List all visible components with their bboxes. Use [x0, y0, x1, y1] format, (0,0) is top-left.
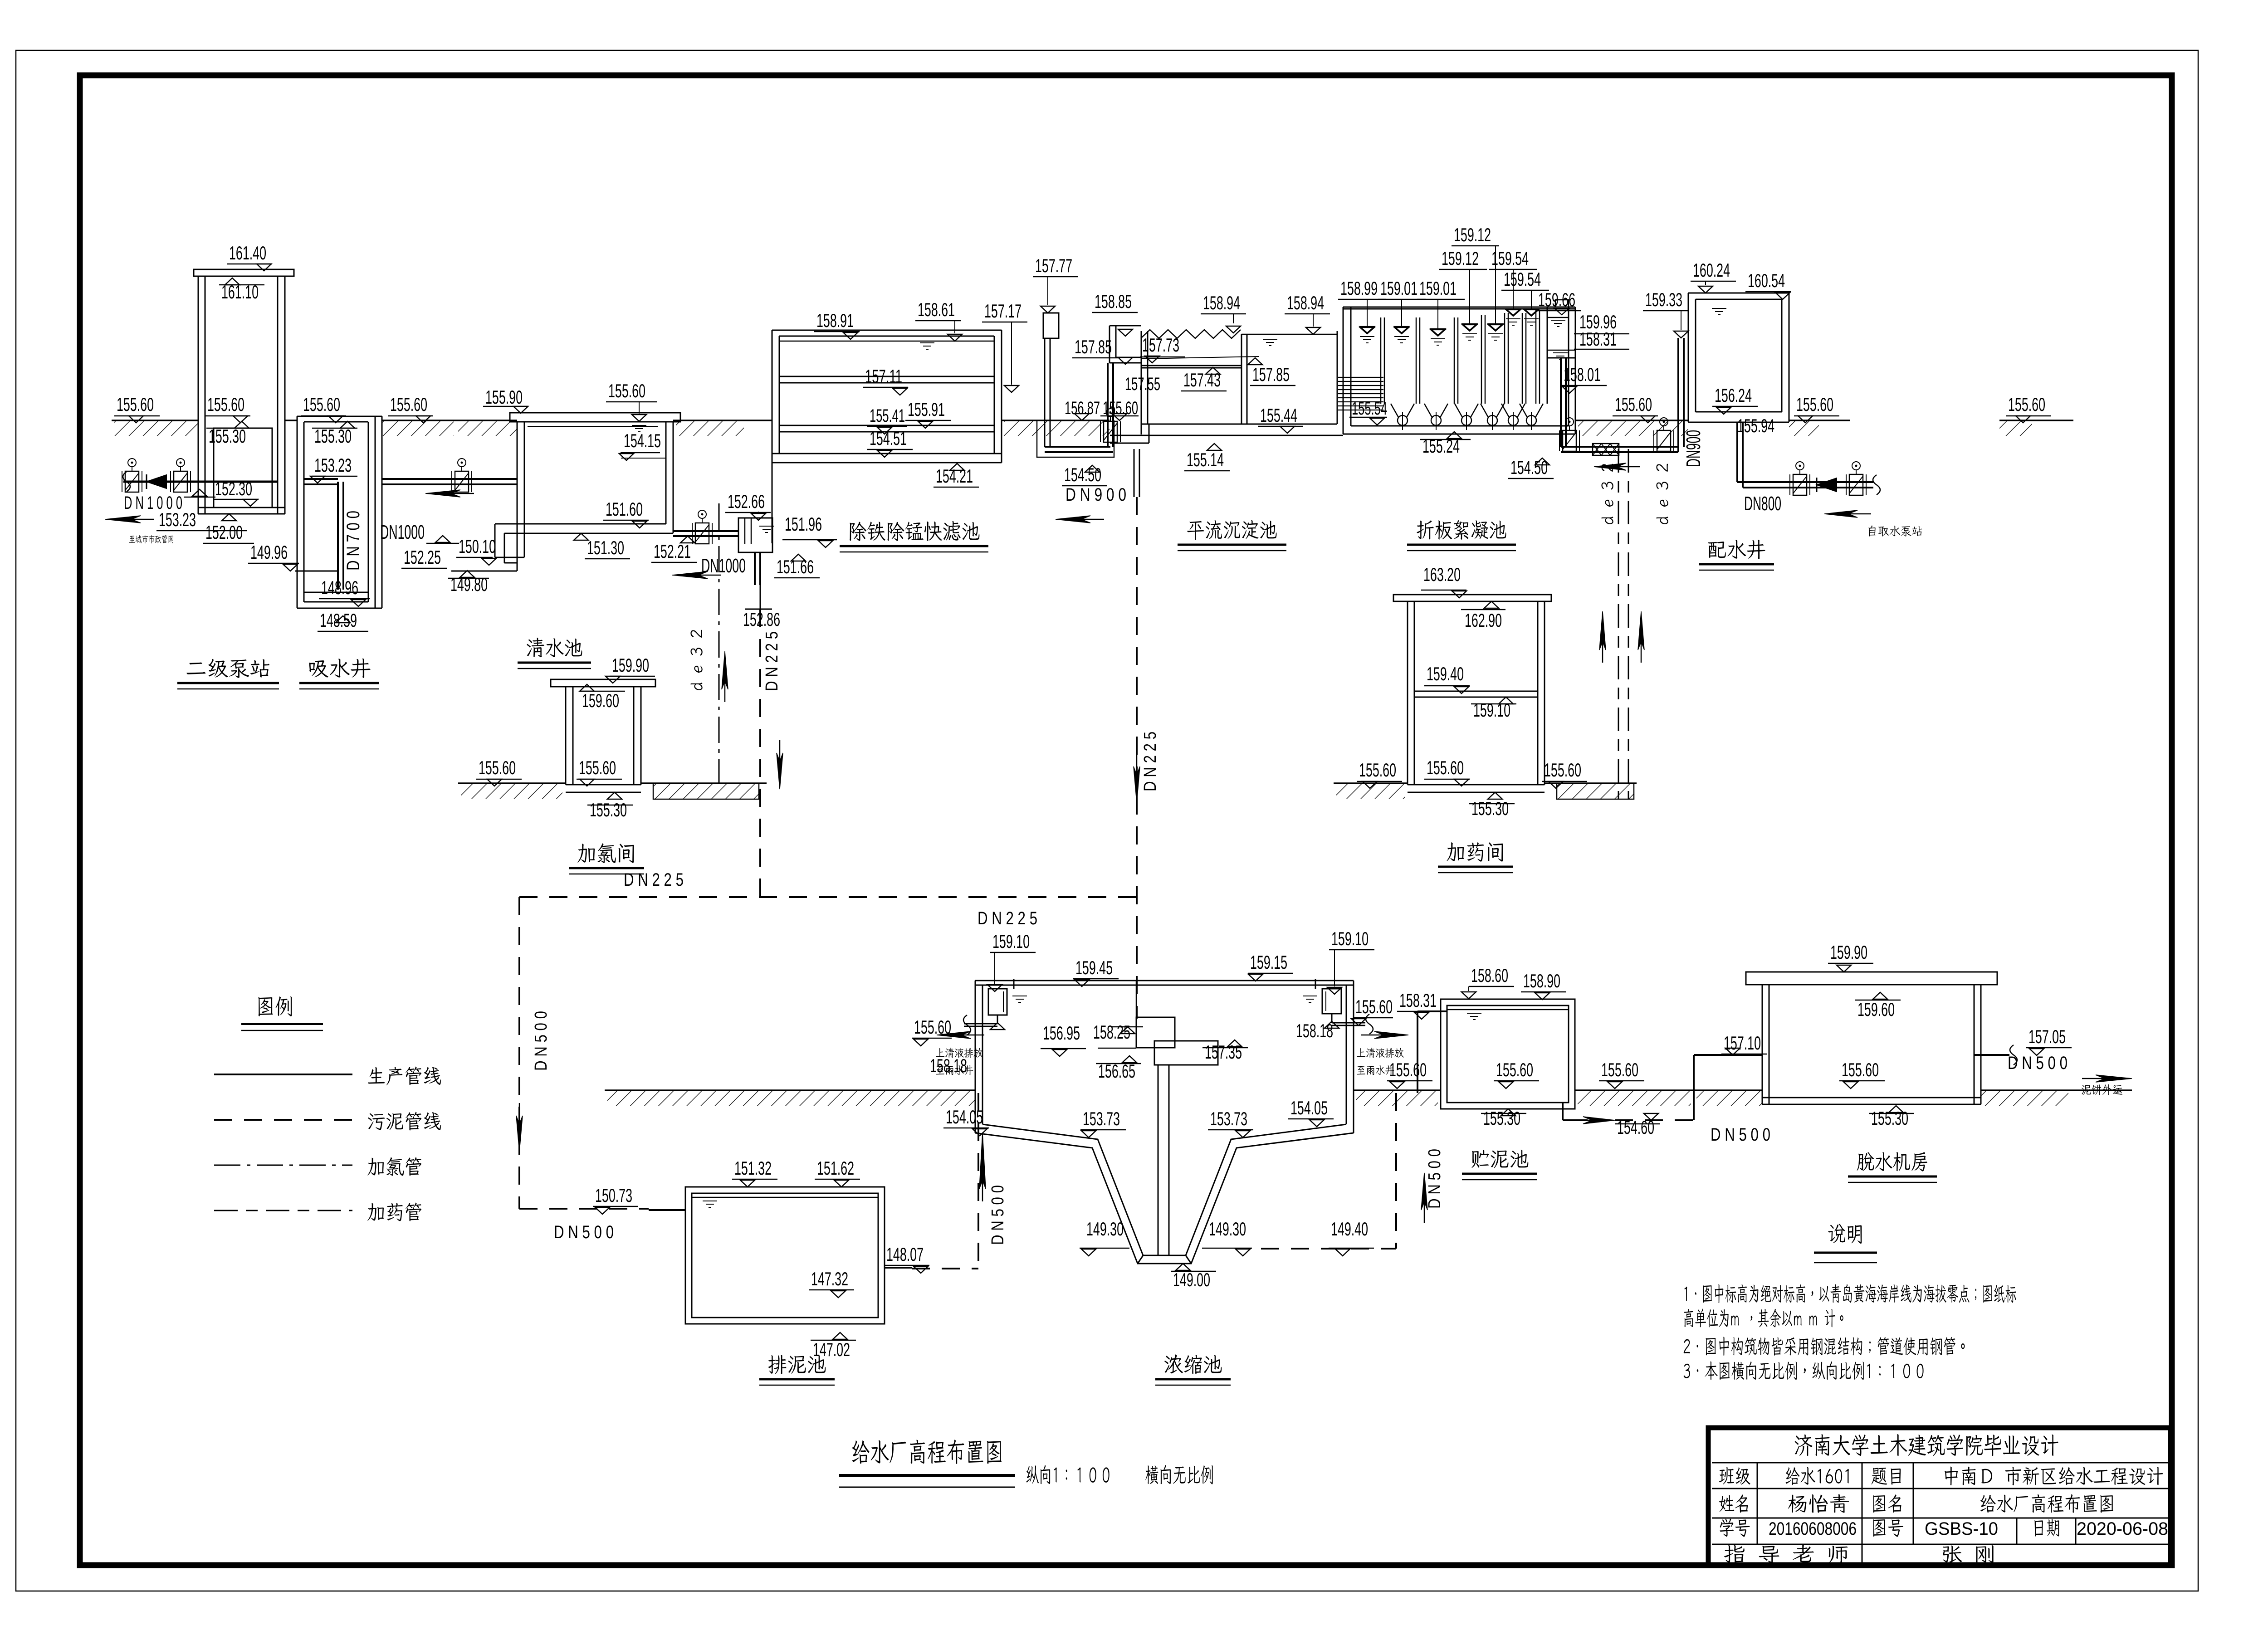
svg-text:157.77: 157.77	[1035, 255, 1072, 276]
svg-text:155.60: 155.60	[608, 380, 645, 401]
svg-text:D N 2 2 5: D N 2 2 5	[763, 631, 782, 691]
svg-text:159.54: 159.54	[1491, 248, 1529, 269]
svg-text:153.73: 153.73	[1083, 1108, 1120, 1129]
svg-text:155.60: 155.60	[1355, 996, 1393, 1017]
svg-text:155.60: 155.60	[914, 1016, 951, 1038]
svg-text:152.66: 152.66	[728, 491, 765, 512]
svg-text:149.96: 149.96	[250, 542, 288, 563]
svg-text:150.10: 150.10	[459, 536, 496, 557]
svg-text:DN1000: DN1000	[701, 555, 746, 577]
svg-text:151.66: 151.66	[777, 556, 814, 577]
svg-text:154.05: 154.05	[946, 1106, 983, 1127]
svg-text:158.99: 158.99	[1340, 278, 1378, 299]
svg-text:158.01: 158.01	[1564, 364, 1601, 385]
svg-text:155.60: 155.60	[1427, 757, 1464, 778]
svg-text:149.30: 149.30	[1086, 1218, 1124, 1240]
svg-text:151.96: 151.96	[785, 513, 822, 535]
svg-text:155.60: 155.60	[579, 757, 616, 778]
svg-text:D N 2 2 5: D N 2 2 5	[624, 870, 684, 890]
svg-text:157.43: 157.43	[1183, 369, 1221, 390]
svg-text:D N 5 0 0: D N 5 0 0	[1711, 1125, 1770, 1145]
svg-text:157.55: 157.55	[1125, 374, 1160, 394]
svg-text:154.50: 154.50	[1510, 457, 1548, 478]
svg-text:161.40: 161.40	[229, 242, 266, 264]
svg-text:153.73: 153.73	[1210, 1108, 1247, 1129]
svg-text:157.11: 157.11	[865, 366, 902, 387]
svg-text:155.91: 155.91	[908, 399, 945, 420]
svg-text:150.73: 150.73	[595, 1185, 632, 1206]
svg-text:159.60: 159.60	[582, 690, 619, 711]
svg-text:151.30: 151.30	[587, 537, 624, 558]
svg-text:158.25: 158.25	[1093, 1021, 1130, 1043]
svg-text:155.90: 155.90	[485, 386, 523, 408]
svg-text:155.54: 155.54	[1352, 399, 1387, 419]
svg-text:153.23: 153.23	[159, 509, 196, 530]
svg-text:158.31: 158.31	[1399, 990, 1437, 1011]
svg-text:151.62: 151.62	[817, 1157, 854, 1179]
svg-text:154.50: 154.50	[1064, 464, 1101, 485]
svg-text:155.60: 155.60	[303, 394, 340, 415]
svg-text:155.60: 155.60	[390, 394, 427, 415]
svg-text:156.95: 156.95	[1043, 1022, 1080, 1044]
svg-text:155.60: 155.60	[117, 394, 154, 415]
svg-text:155.60: 155.60	[1496, 1059, 1533, 1080]
svg-text:DN900: DN900	[1682, 430, 1705, 467]
svg-text:159.12: 159.12	[1454, 224, 1491, 245]
svg-text:D N 9 0 0: D N 9 0 0	[1066, 485, 1126, 505]
svg-text:155.60: 155.60	[479, 757, 516, 778]
svg-text:152.30: 152.30	[215, 478, 252, 499]
svg-text:155.60: 155.60	[1389, 1059, 1427, 1080]
svg-text:160.54: 160.54	[1748, 270, 1785, 291]
svg-text:155.30: 155.30	[1483, 1108, 1520, 1129]
svg-text:159.40: 159.40	[1427, 663, 1464, 684]
svg-text:D N 2 2 5: D N 2 2 5	[978, 908, 1037, 928]
svg-text:159.54: 159.54	[1504, 268, 1541, 290]
svg-text:147.02: 147.02	[813, 1339, 850, 1360]
svg-text:155.60: 155.60	[1842, 1059, 1879, 1080]
svg-text:D N 5 0 0: D N 5 0 0	[2008, 1053, 2068, 1073]
svg-text:D N 5 0 0: D N 5 0 0	[554, 1222, 614, 1242]
svg-text:153.23: 153.23	[314, 454, 352, 476]
svg-text:D N 2 2 5: D N 2 2 5	[1141, 732, 1160, 791]
svg-text:155.30: 155.30	[590, 799, 627, 820]
svg-text:155.60: 155.60	[1544, 759, 1581, 781]
svg-text:155.30: 155.30	[1471, 798, 1509, 819]
svg-text:GSBS-10: GSBS-10	[1925, 1519, 1998, 1539]
svg-text:152.00: 152.00	[205, 522, 243, 543]
svg-text:158.18: 158.18	[1296, 1020, 1333, 1041]
svg-text:157.17: 157.17	[984, 300, 1022, 322]
svg-text:155.60: 155.60	[1601, 1059, 1638, 1080]
svg-text:D N 5 0 0: D N 5 0 0	[988, 1185, 1007, 1245]
svg-text:158.94: 158.94	[1287, 292, 1324, 313]
svg-text:D N 7 0 0: D N 7 0 0	[343, 511, 363, 571]
svg-text:151.60: 151.60	[606, 498, 643, 520]
svg-text:159.01: 159.01	[1419, 278, 1457, 299]
svg-text:159.10: 159.10	[992, 931, 1030, 952]
svg-text:159.15: 159.15	[1250, 952, 1287, 973]
svg-text:152.21: 152.21	[654, 541, 691, 562]
svg-text:159.90: 159.90	[612, 654, 649, 676]
svg-text:155.60: 155.60	[1359, 759, 1396, 781]
svg-text:158.91: 158.91	[816, 310, 854, 331]
svg-text:152.86: 152.86	[743, 609, 780, 630]
svg-text:154.15: 154.15	[624, 430, 661, 451]
svg-text:154.05: 154.05	[1290, 1097, 1328, 1118]
svg-text:156.87: 156.87	[1065, 398, 1100, 418]
svg-text:DN1000: DN1000	[380, 521, 425, 543]
svg-text:157.85: 157.85	[1075, 336, 1112, 357]
svg-text:154.51: 154.51	[870, 428, 907, 449]
svg-text:155.41: 155.41	[870, 406, 905, 426]
svg-text:158.18: 158.18	[930, 1055, 967, 1076]
svg-text:155.44: 155.44	[1260, 405, 1297, 426]
svg-text:154.21: 154.21	[936, 465, 973, 487]
svg-text:148.07: 148.07	[886, 1244, 924, 1265]
svg-text:159.01: 159.01	[1380, 278, 1417, 299]
svg-text:159.10: 159.10	[1473, 699, 1510, 721]
svg-text:149.40: 149.40	[1331, 1218, 1368, 1240]
svg-text:155.14: 155.14	[1187, 449, 1224, 470]
svg-text:155.60: 155.60	[1615, 394, 1652, 415]
svg-text:D N 5 0 0: D N 5 0 0	[1425, 1149, 1444, 1209]
svg-text:157.35: 157.35	[1205, 1041, 1242, 1063]
svg-text:151.32: 151.32	[734, 1157, 772, 1179]
svg-text:149.00: 149.00	[1173, 1269, 1210, 1290]
svg-text:157.85: 157.85	[1252, 364, 1290, 385]
svg-text:159.90: 159.90	[1830, 942, 1867, 963]
svg-text:163.20: 163.20	[1423, 564, 1461, 585]
svg-text:152.25: 152.25	[404, 547, 441, 568]
svg-text:155.60: 155.60	[207, 394, 244, 415]
svg-text:158.94: 158.94	[1203, 292, 1240, 313]
svg-text:2020-06-08: 2020-06-08	[2077, 1519, 2168, 1539]
svg-text:147.32: 147.32	[811, 1268, 848, 1289]
svg-text:159.33: 159.33	[1645, 289, 1682, 310]
svg-text:156.24: 156.24	[1715, 385, 1752, 406]
svg-text:148.96: 148.96	[321, 577, 358, 598]
svg-text:162.90: 162.90	[1465, 610, 1502, 631]
svg-text:DN800: DN800	[1744, 493, 1781, 515]
svg-text:158.31: 158.31	[1579, 328, 1617, 350]
svg-text:D N 5 0 0: D N 5 0 0	[532, 1011, 551, 1071]
svg-text:160.24: 160.24	[1693, 259, 1730, 281]
svg-text:159.45: 159.45	[1075, 957, 1113, 978]
svg-text:157.10: 157.10	[1724, 1032, 1761, 1054]
svg-text:155.60: 155.60	[2008, 394, 2045, 415]
svg-text:159.10: 159.10	[1331, 928, 1369, 949]
svg-text:159.12: 159.12	[1442, 248, 1479, 269]
svg-text:20160608006: 20160608006	[1769, 1519, 1857, 1539]
svg-text:158.90: 158.90	[1523, 970, 1560, 991]
svg-text:155.60: 155.60	[1796, 394, 1833, 415]
svg-text:158.85: 158.85	[1095, 291, 1132, 312]
svg-text:149.30: 149.30	[1209, 1218, 1246, 1240]
svg-text:158.61: 158.61	[918, 299, 955, 320]
svg-text:157.05: 157.05	[2028, 1026, 2066, 1047]
svg-text:155.30: 155.30	[1871, 1108, 1908, 1129]
svg-text:159.60: 159.60	[1857, 999, 1895, 1020]
svg-text:158.60: 158.60	[1471, 965, 1508, 986]
